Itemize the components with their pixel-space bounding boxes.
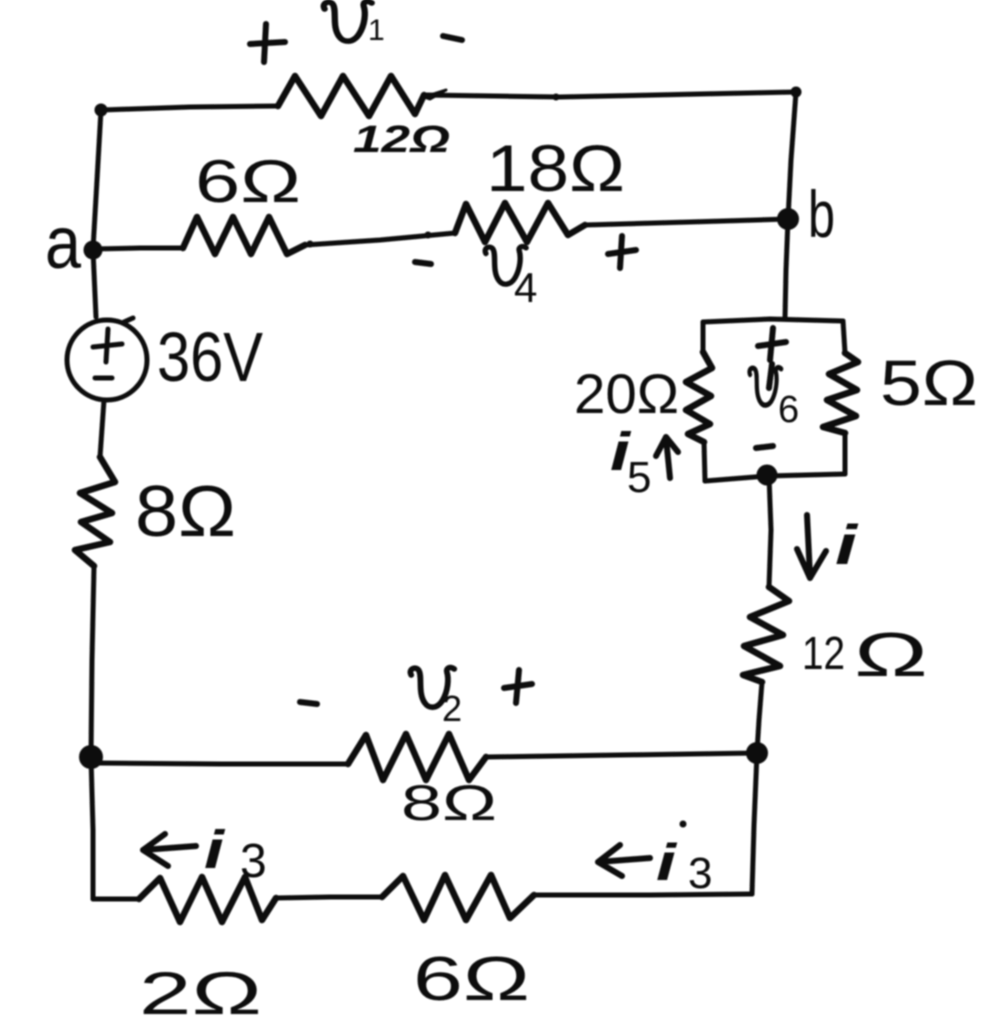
wire bottom-left node to 8ohm V2 xyxy=(95,763,348,764)
wire 12ohm to top-right corner xyxy=(424,92,796,97)
svg-text:i: i xyxy=(204,820,225,880)
label V1 xyxy=(324,2,372,42)
wire 8ohm V2 to right mid node xyxy=(486,753,757,757)
node a dot xyxy=(84,241,103,260)
wire 18ohm to node b xyxy=(585,219,788,225)
label V4 xyxy=(485,247,526,285)
label plus V1 xyxy=(250,24,285,62)
voltage source pen tick xyxy=(124,318,133,322)
parallel box top edge xyxy=(703,319,843,322)
voltage source 36V circle xyxy=(67,320,147,400)
svg-text:8Ω: 8Ω xyxy=(401,775,497,831)
parallel box right edge lower xyxy=(843,433,848,474)
node dot top-left xyxy=(95,104,108,117)
wire bottom-left node down to bottom rail xyxy=(91,757,93,899)
svg-text:4: 4 xyxy=(514,264,537,311)
label minus V6 xyxy=(756,446,773,448)
svg-text:3: 3 xyxy=(688,849,712,898)
arrow i3 left xyxy=(143,834,196,866)
node dot bottom-left xyxy=(79,745,103,769)
node dot top-right xyxy=(791,87,802,98)
wire bottom-left corner to 2ohm xyxy=(93,897,139,902)
svg-text:18Ω: 18Ω xyxy=(486,131,625,205)
plus tail V6 xyxy=(769,364,772,388)
svg-text:5: 5 xyxy=(627,453,651,502)
wire source to 8ohm resistor xyxy=(100,400,104,457)
label minus V2 xyxy=(300,702,317,704)
svg-text:6: 6 xyxy=(778,389,799,431)
svg-text:2Ω: 2Ω xyxy=(139,960,262,1024)
svg-text:Ω: Ω xyxy=(854,621,928,690)
label minus V4 xyxy=(415,262,431,264)
stray ink dot xyxy=(680,821,687,828)
svg-text:3: 3 xyxy=(240,835,267,888)
parallel box right edge upper xyxy=(843,321,845,353)
resistor 20ohm (box left) xyxy=(686,352,712,442)
wire right mid node down to bottom rail xyxy=(752,753,757,894)
label plus V4 xyxy=(608,236,636,268)
svg-text:a: a xyxy=(45,201,82,284)
node b dot xyxy=(777,208,799,230)
resistor 2ohm xyxy=(139,877,276,922)
arrow i5 up xyxy=(656,437,678,478)
resistor 5ohm (box right) xyxy=(823,353,858,433)
wire node b down to box xyxy=(785,219,788,318)
parallel box bottom edge xyxy=(705,474,845,481)
node dot box bottom xyxy=(757,465,778,486)
svg-text:5Ω: 5Ω xyxy=(880,347,978,419)
label V2 xyxy=(410,668,454,708)
parallel box left edge lower xyxy=(704,442,705,481)
voltage source plus sign xyxy=(93,329,122,362)
pen dot top wire xyxy=(553,94,560,101)
resistor 12ohm right vertical xyxy=(743,587,789,682)
svg-text:8Ω: 8Ω xyxy=(135,472,236,552)
wire 6ohm to bottom-right corner xyxy=(534,894,752,895)
svg-text:b: b xyxy=(808,177,835,251)
svg-text:20Ω: 20Ω xyxy=(574,362,679,425)
arrow i3 right xyxy=(598,845,650,876)
resistor 6ohm xyxy=(183,217,305,254)
svg-text:36V: 36V xyxy=(157,318,263,396)
label minus V1 xyxy=(443,36,462,40)
arrow i down xyxy=(797,515,826,578)
resistor 8ohm bottom (V2) xyxy=(348,734,486,780)
svg-text:6Ω: 6Ω xyxy=(195,148,301,215)
svg-text:i: i xyxy=(835,513,859,576)
resistor 8ohm left vertical xyxy=(75,457,115,566)
resistor 18ohm xyxy=(455,203,585,242)
wire 6ohm to 18ohm xyxy=(305,233,455,245)
voltage source minus sign xyxy=(95,376,112,381)
parallel box left edge upper xyxy=(701,322,706,352)
wire right vertical top-right to node b xyxy=(788,92,796,219)
wire 12ohm to right mid node xyxy=(757,682,762,752)
svg-text:i: i xyxy=(656,834,678,892)
pen arrowhead on top wire xyxy=(424,90,446,99)
wire node a to 6ohm xyxy=(93,248,183,249)
svg-text:12Ω: 12Ω xyxy=(353,119,450,161)
node dot right mid xyxy=(746,742,768,764)
wire 2ohm to 6ohm xyxy=(276,897,382,898)
svg-text:12: 12 xyxy=(802,627,845,679)
label V6 xyxy=(749,368,781,406)
pen dot 6ohm end xyxy=(307,241,314,248)
resistor R top 12ohm xyxy=(278,76,424,116)
resistor 6ohm bottom xyxy=(382,875,534,920)
svg-text:1: 1 xyxy=(368,14,385,47)
label plus V6 xyxy=(758,328,786,360)
svg-text:6Ω: 6Ω xyxy=(413,945,530,1014)
wire left vertical a to top-left xyxy=(93,110,101,249)
wire 8ohm down to bottom-left node xyxy=(91,566,94,756)
label plus V2 xyxy=(504,670,532,703)
wire node a to source xyxy=(93,250,96,317)
svg-text:2: 2 xyxy=(442,688,462,729)
pen dot mid wire xyxy=(425,232,432,239)
wire box bottom down to 12ohm xyxy=(769,476,771,587)
wire top-left to 12ohm resistor xyxy=(101,106,278,110)
